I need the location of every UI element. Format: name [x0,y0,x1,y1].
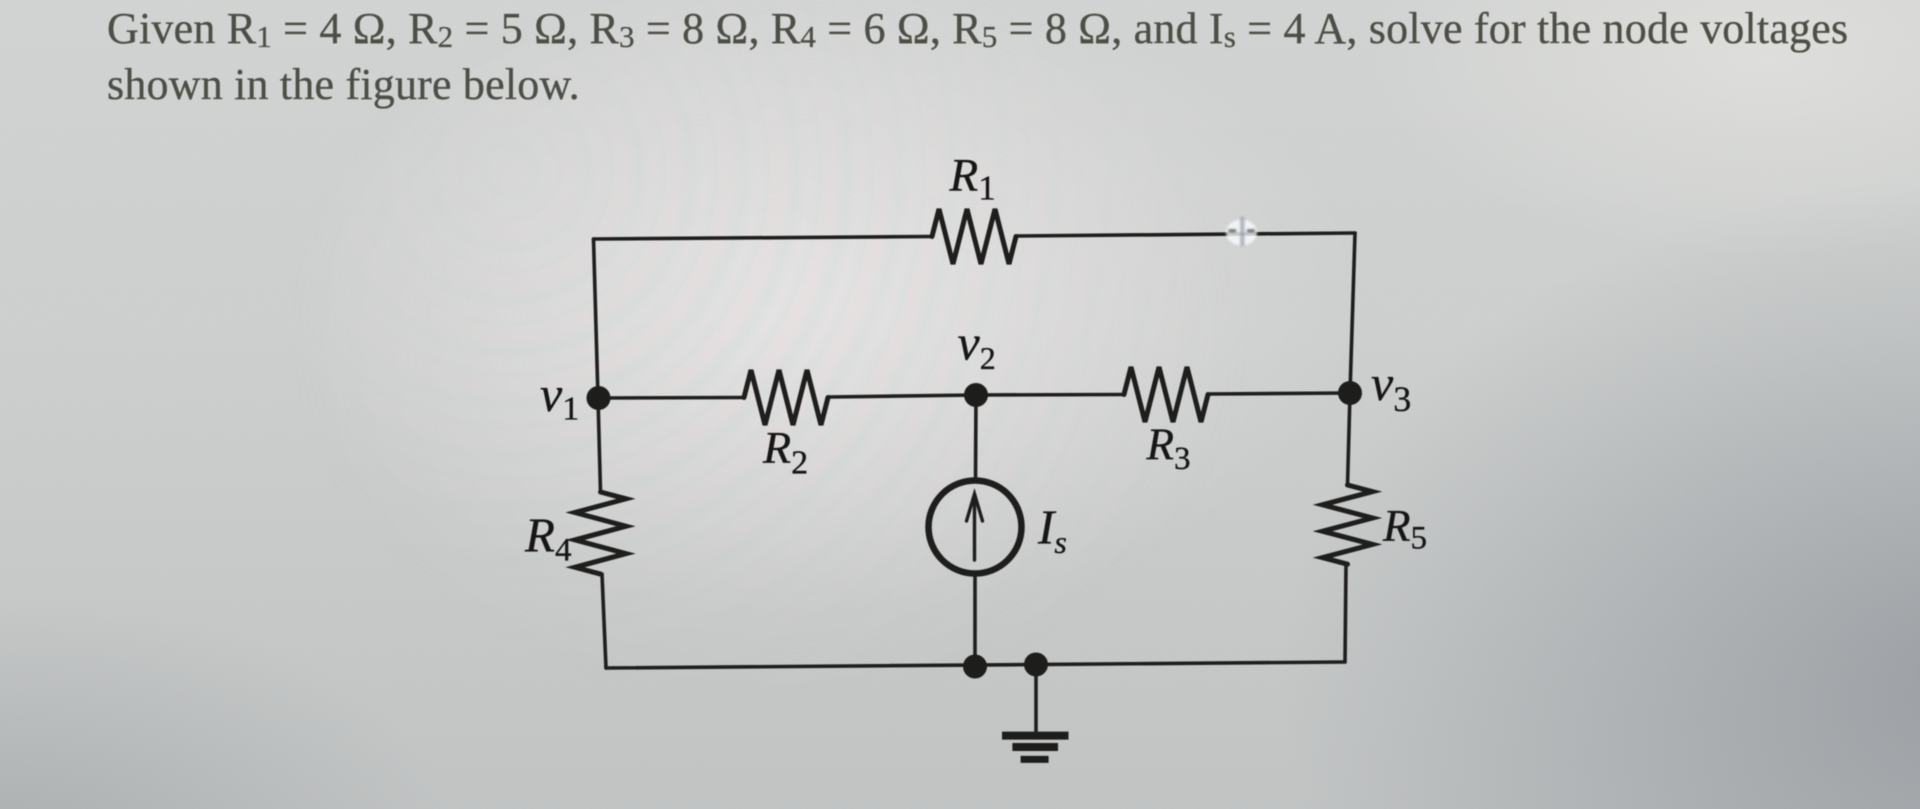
ground [1002,736,1069,760]
node junction dot at top of ground [1024,653,1048,677]
svg-text:R3: R3 [1146,420,1191,478]
wire: left vertical R4 down to bottom-left corner [602,574,606,668]
wire: v3 down to R5 [1348,393,1351,485]
problem statement text [107,1,1902,113]
svg-text:R2: R2 [762,422,808,482]
wire: middle horizontal v2 to R3 [976,393,1124,397]
node v1 dot [587,386,611,410]
wire: middle horizontal R2 to v2 [828,395,976,397]
wire: top horizontal left of R1 [594,237,933,240]
wire: ground stem [1034,665,1038,734]
node v3 dot [1338,381,1362,405]
wire: right vertical from top wire down to v3 [1350,233,1355,393]
resistor R1 [932,209,1016,264]
resistor R5 [1323,485,1373,564]
node junction dot at bottom of source [963,655,987,679]
text cursor (I-beam over wire) [1226,217,1257,246]
wire: v2 down to current source [974,395,978,481]
svg-text:v3: v3 [1371,355,1411,419]
wire: current source down to bottom junction [973,574,977,666]
svg-text:R1: R1 [949,150,996,208]
resistor R3 [1124,367,1208,422]
wire: middle horizontal v1 to R2 [598,396,744,400]
current source arrow [967,494,983,560]
svg-text:v1: v1 [540,366,579,428]
wire: top-left vertical (v1 up to top wire) [594,239,599,398]
svg-text:R5: R5 [1382,501,1427,557]
wire: top horizontal right of R1 [1016,233,1355,236]
current source Is circle [929,481,1022,574]
labels [524,150,1427,569]
svg-text:Is: Is [1037,500,1067,561]
resistor R2 [744,370,828,425]
wire: R5 down to bottom-right corner [1345,564,1346,662]
wire: bottom horizontal [606,662,1345,668]
svg-text:R4: R4 [524,508,571,569]
resistor R4 [575,492,626,574]
wire: left vertical v1 down to R4 [598,398,601,492]
wire: middle horizontal R3 to v3 [1208,393,1350,394]
node v2 dot [964,383,988,407]
svg-text:v2: v2 [958,315,996,377]
